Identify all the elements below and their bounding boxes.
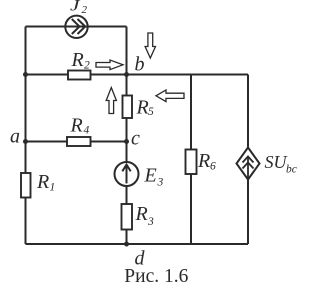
- hollow arrow left (right of R5): [156, 90, 184, 102]
- voltage source E3: [115, 162, 139, 186]
- svg-text:bc: bc: [286, 164, 297, 176]
- svg-text:5: 5: [148, 106, 154, 118]
- hollow arrow up (left of R5): [106, 88, 116, 114]
- svg-text:3: 3: [147, 216, 154, 228]
- svg-text:1: 1: [50, 182, 56, 194]
- svg-text:R: R: [136, 97, 149, 119]
- current source J2: [65, 16, 87, 38]
- resistor R6: [186, 150, 197, 175]
- resistor R4: [67, 137, 91, 146]
- svg-text:2: 2: [82, 4, 88, 16]
- node d: [124, 242, 129, 247]
- wire left vertical: [25, 27, 27, 245]
- wire bottom horizontal: [26, 243, 249, 245]
- svg-text:b: b: [135, 54, 145, 76]
- resistor R1: [21, 173, 31, 198]
- svg-text:J: J: [70, 0, 81, 15]
- svg-text:Рис. 1.6: Рис. 1.6: [124, 266, 188, 287]
- svg-text:R: R: [70, 115, 83, 137]
- wire center vertical b to d: [126, 75, 128, 245]
- svg-text:a: a: [10, 126, 20, 148]
- wire R6 branch vertical: [190, 75, 192, 245]
- wire a-c horizontal: [26, 141, 127, 143]
- svg-text:R: R: [36, 171, 49, 193]
- svg-text:4: 4: [84, 125, 90, 137]
- dependent source SUbc: [237, 148, 260, 180]
- resistor R3: [122, 204, 133, 230]
- svg-text:3: 3: [157, 177, 164, 189]
- svg-text:R: R: [71, 49, 84, 71]
- wire top right vertical to node b: [126, 27, 128, 75]
- svg-text:6: 6: [210, 161, 216, 173]
- svg-text:R: R: [135, 203, 148, 225]
- resistor R2: [68, 71, 91, 80]
- node a: [23, 139, 28, 144]
- node b: [124, 72, 129, 77]
- wire right branch vertical: [247, 75, 249, 245]
- svg-text:R: R: [197, 150, 210, 172]
- svg-text:E: E: [144, 165, 157, 187]
- node c: [124, 139, 129, 144]
- svg-text:c: c: [131, 128, 140, 150]
- resistor R5: [123, 96, 133, 119]
- svg-text:2: 2: [84, 60, 90, 72]
- hollow arrow right (near R2): [96, 60, 123, 70]
- wire top horizontal through J2: [26, 26, 127, 28]
- hollow arrow down (top): [145, 33, 155, 58]
- svg-text:SU: SU: [265, 152, 288, 172]
- node dot left-b-line: [23, 72, 28, 77]
- wire main horizontal b-line: [26, 74, 249, 76]
